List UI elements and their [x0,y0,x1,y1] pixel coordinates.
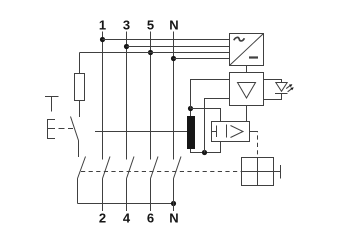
actuator handle link [274,171,281,173]
wire pole5 bottom vertical [150,179,152,212]
wire resistor top stem [79,53,81,74]
node junction phaseN [171,56,176,61]
node junction phase3 [124,44,129,49]
pole1 contact blade [103,157,111,179]
wire bottom bus to N [78,203,174,205]
poleN contact blade [174,157,182,179]
wire bus phase3 to rectifier [127,46,230,48]
svg-text:N: N [169,211,178,226]
rectifier U1 box [230,34,264,66]
node junction N bottom [171,201,176,206]
wire amplifier to trip relay [246,106,248,122]
trip relay greater-than [231,126,244,138]
node CT bottom junction [202,150,207,155]
wire pole3 bottom vertical [126,179,128,212]
node junction phase1 [100,37,105,42]
wire poleN top vertical [173,32,175,160]
wire poleN bottom vertical [173,179,175,212]
wire pole3 top vertical [126,32,128,160]
amplifier U2 box [230,73,264,106]
rectifier diagonal [230,34,264,66]
wire pole1 top vertical [102,32,104,160]
wire test branch bottom vertical [77,179,79,204]
rectifier AC tilde [234,37,245,41]
actuator handle T-bar [280,165,282,179]
trip relay input tick [212,126,217,138]
svg-text:1: 1 [99,18,106,33]
test branch linked contact blade [78,157,86,179]
wire test line to CT [95,131,187,133]
wire test branch middle vertical [78,141,80,158]
LED emission arrows [286,84,294,92]
wire bus phaseN to rectifier [174,58,230,60]
node CT top junction [188,106,193,111]
wire CT top stem [190,109,192,117]
mechanical link test button (dashed) [59,128,74,130]
pole5 contact blade [151,157,159,179]
trip relay I> box [212,122,250,142]
amplifier triangle [238,83,256,99]
wire CT bottom lead to amplifier [205,99,230,153]
wire CT bottom stem [191,142,221,153]
wire pole1 bottom vertical [102,179,104,212]
LED D1 [276,83,287,92]
pole3 contact blade [127,157,135,179]
test button actuator bracket [48,120,56,139]
actuator mechanism box [242,158,274,186]
svg-text:4: 4 [123,211,131,226]
wire CT top lead to amplifier [191,80,230,109]
rectifier DC minus [249,56,258,58]
svg-text:6: 6 [147,211,154,226]
test button T handle [45,97,59,112]
wire bus phase1 to rectifier [103,39,230,41]
wire pole5 top vertical [150,32,152,160]
actuator cross horizontal [242,171,274,173]
actuator cross vertical [257,158,259,186]
svg-text:2: 2 [99,211,106,226]
wire LED loop top [264,80,282,83]
svg-text:N: N [169,18,178,33]
wire CT junction to trip relay top [191,109,221,122]
resistor R test [75,74,85,101]
current transformer core W [187,116,195,149]
wire resistor bottom stem [79,101,81,118]
LED cathode bar [275,93,288,95]
trip relay I [226,125,228,138]
wire bus phase5/resistor to rectifier [80,52,230,54]
node junction phase5 [148,50,153,55]
svg-text:3: 3 [123,18,130,33]
mechanical trip bar (dashed) [81,171,242,173]
wire LED loop bottom [264,94,282,100]
wire dashed link to actuator [254,132,258,158]
svg-text:5: 5 [147,18,154,33]
test button contact blade [71,117,79,141]
wire trip relay output stub [250,131,255,133]
wire rectifier to amplifier [246,66,248,73]
